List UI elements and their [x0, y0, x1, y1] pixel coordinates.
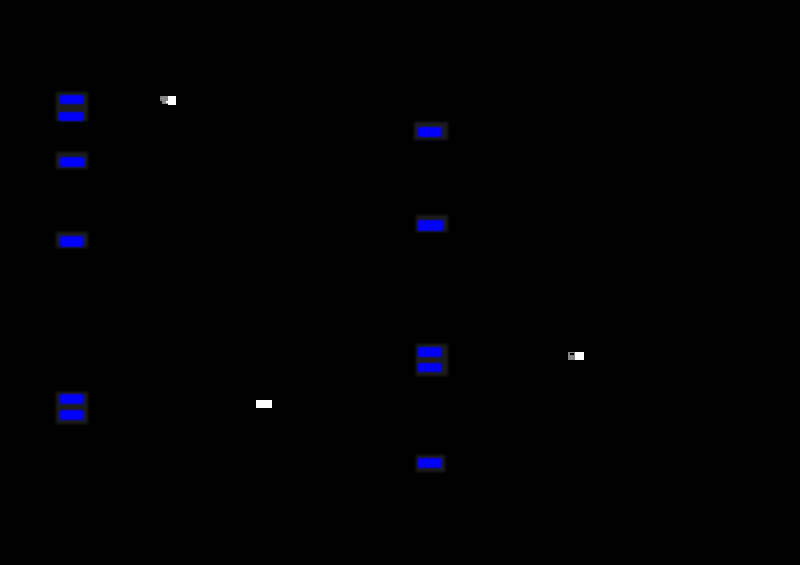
- halo around link B5: [416, 455, 445, 472]
- link A3: [60, 157, 85, 167]
- halo around links A5/A6: [56, 392, 88, 424]
- halo around links B3/B4: [416, 344, 448, 376]
- link A2: [59, 112, 84, 121]
- link B4: [418, 363, 442, 372]
- link B1: [418, 127, 442, 137]
- link B3: [418, 347, 442, 357]
- link A5: [60, 394, 84, 404]
- icon I3 white square: [575, 352, 584, 360]
- halo around link A4: [56, 232, 88, 248]
- icon I3 gray part: [568, 352, 576, 360]
- halo around links A1/A2: [56, 92, 88, 121]
- link A6: [60, 410, 84, 420]
- link B5: [418, 458, 442, 468]
- halo around link A3: [56, 152, 88, 169]
- icon I2 white rectangle: [256, 400, 272, 408]
- link A4: [60, 236, 84, 247]
- icon I1 white square: [168, 96, 177, 105]
- halo around link B2: [416, 215, 448, 232]
- halo around link B1: [414, 122, 448, 140]
- icon I1 gray part: [160, 96, 168, 104]
- link A1: [60, 95, 84, 104]
- link B2: [418, 220, 444, 231]
